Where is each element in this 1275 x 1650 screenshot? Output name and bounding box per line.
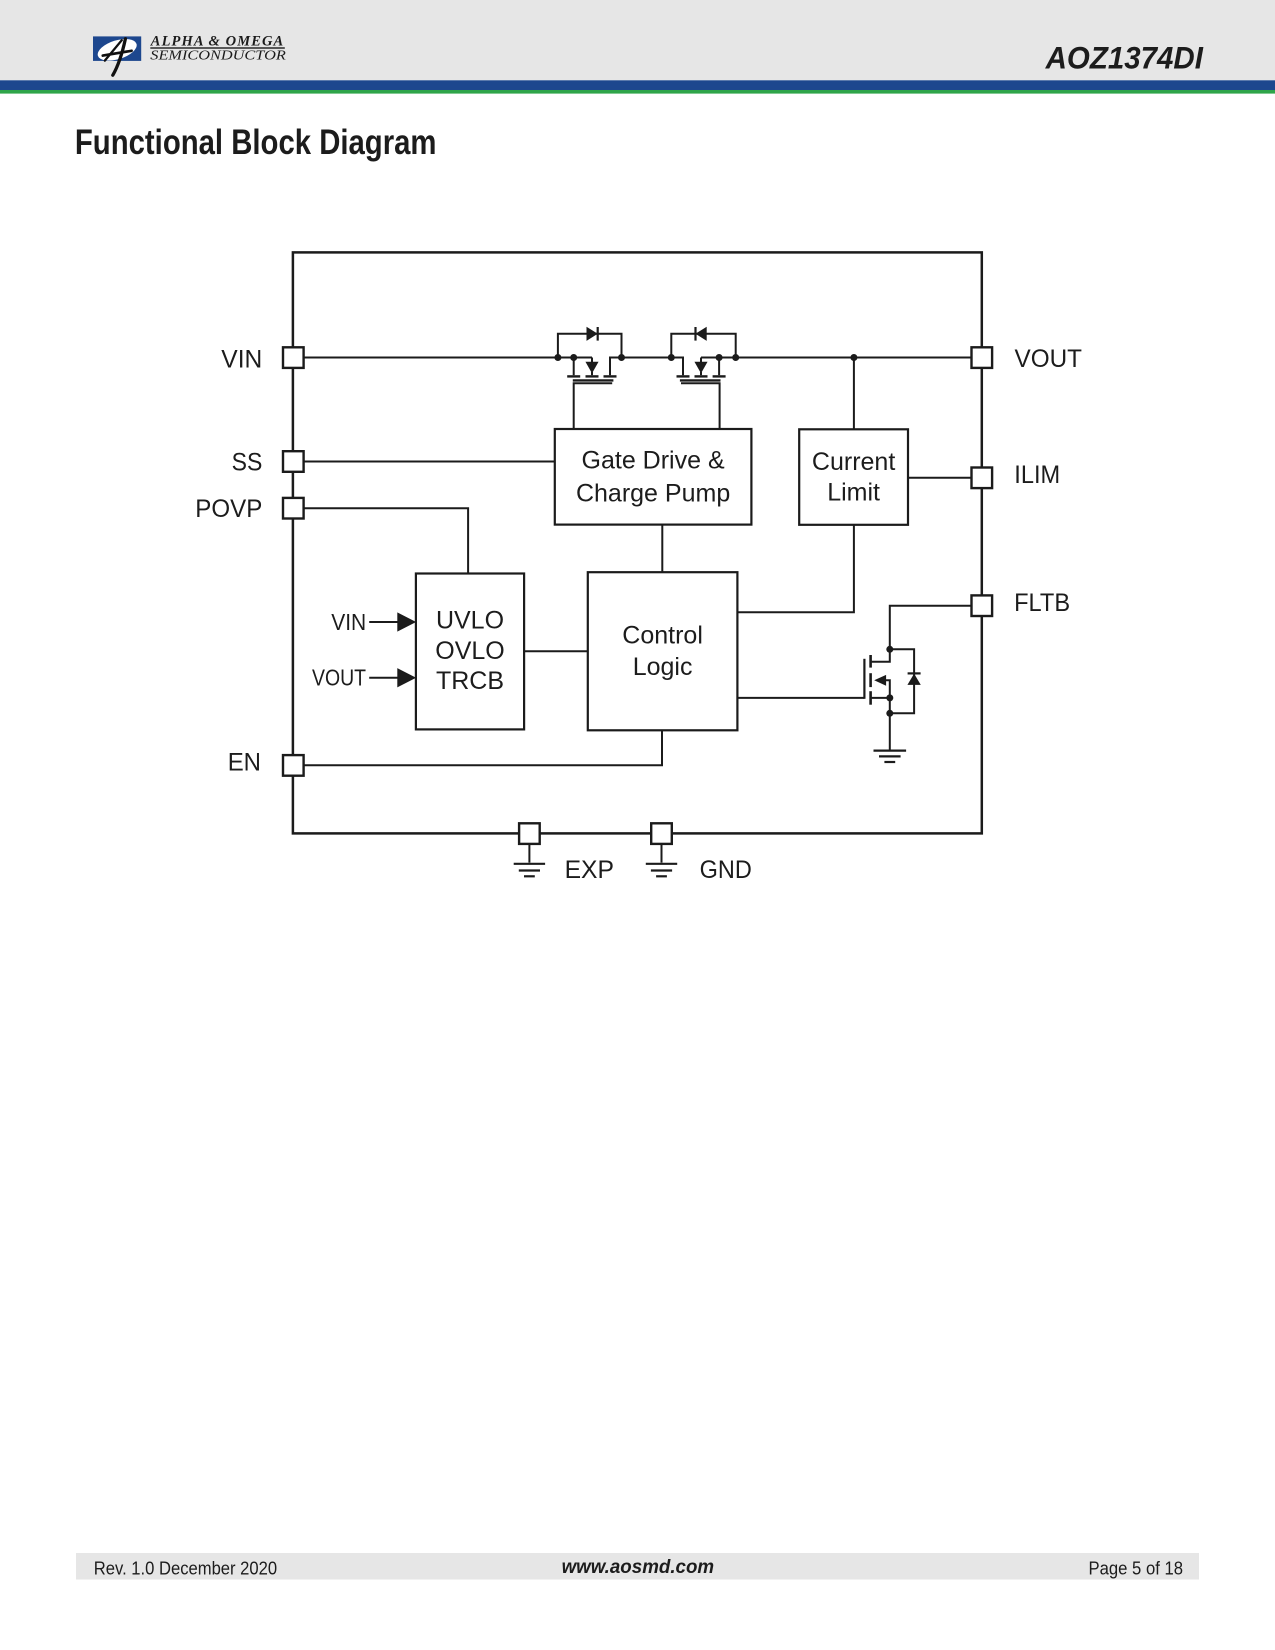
- svg-text:FLTB: FLTB: [1014, 589, 1070, 617]
- wire current limit to ILIM: [908, 477, 972, 479]
- svg-text:Control: Control: [622, 622, 703, 650]
- svg-text:Logic: Logic: [633, 653, 693, 681]
- svg-text:ILIM: ILIM: [1014, 461, 1060, 489]
- wire FLTB to Q3 drain: [872, 606, 972, 662]
- pin ILIM: [972, 468, 993, 489]
- block Gate Drive & Charge Pump: [555, 429, 752, 525]
- pin EN: [283, 755, 304, 776]
- wire gate drive to control logic: [661, 525, 663, 573]
- transistor Q1 body-diode loop: [558, 334, 622, 358]
- svg-text:SEMICONDUCTOR: SEMICONDUCTOR: [150, 47, 286, 62]
- block UVLO OVLO TRCB: [416, 574, 524, 730]
- wire mid segment between MOSFETs: [610, 357, 683, 359]
- logo white ellipse: [95, 35, 139, 65]
- svg-text:www.aosmd.com: www.aosmd.com: [562, 1556, 715, 1578]
- pin SS: [283, 451, 304, 472]
- diode D1: [587, 327, 598, 341]
- svg-text:OVLO: OVLO: [435, 637, 504, 665]
- diode D2: [696, 327, 707, 341]
- wire UVLO block to control logic: [524, 650, 588, 652]
- wire current-limit sense tap: [853, 358, 855, 430]
- logo blue box: [93, 36, 141, 61]
- svg-text:VIN: VIN: [331, 609, 366, 635]
- svg-text:Gate Drive &: Gate Drive &: [582, 447, 725, 475]
- svg-text:TRCB: TRCB: [436, 667, 504, 695]
- block Current Limit: [799, 429, 908, 525]
- svg-text:POVP: POVP: [195, 495, 262, 523]
- transistor Q3: [864, 655, 889, 750]
- pin GND: [651, 823, 672, 844]
- header gray band: [0, 0, 1275, 80]
- logo underline: [150, 47, 284, 48]
- svg-text:VOUT: VOUT: [1015, 345, 1083, 373]
- header green rule: [0, 90, 1275, 94]
- svg-text:VOUT: VOUT: [312, 665, 366, 691]
- pin VIN: [283, 347, 304, 368]
- svg-text:Charge Pump: Charge Pump: [576, 480, 730, 508]
- svg-text:Functional Block Diagram: Functional Block Diagram: [75, 123, 437, 162]
- wire SS to gate drive: [304, 461, 555, 463]
- wire EN to control logic: [304, 730, 663, 765]
- wire control logic to current limit: [737, 525, 854, 613]
- pin VOUT: [972, 347, 993, 368]
- wire VIN rail left segment: [304, 357, 593, 359]
- svg-text:VIN: VIN: [221, 345, 262, 373]
- footer gray bar: [76, 1553, 1199, 1580]
- pin POVP: [283, 498, 304, 519]
- chip outline: [293, 252, 982, 833]
- svg-text:AOZ1374DI: AOZ1374DI: [1045, 40, 1204, 76]
- svg-text:Current: Current: [812, 448, 895, 476]
- wire VOUT rail right segment: [701, 357, 971, 359]
- svg-text:EXP: EXP: [565, 856, 614, 884]
- diode D3 body diode of Q3: [890, 649, 914, 713]
- svg-text:GND: GND: [700, 856, 752, 884]
- svg-text:UVLO: UVLO: [436, 606, 504, 634]
- svg-text:Page 5 of 18: Page 5 of 18: [1089, 1557, 1184, 1578]
- svg-text:Rev. 1.0 December 2020: Rev. 1.0 December 2020: [94, 1557, 277, 1578]
- header blue rule: [0, 80, 1275, 90]
- wire control logic to Q3 gate: [737, 697, 864, 699]
- svg-text:Limit: Limit: [827, 479, 880, 507]
- logo stylized A: [103, 39, 132, 75]
- node junction dots: [554, 354, 893, 717]
- ground below GND: [646, 844, 677, 876]
- transistor Q1: [567, 358, 621, 430]
- transistor Q2: [671, 358, 725, 430]
- wire POVP to UVLO block: [304, 508, 469, 573]
- transistor Q2 body-diode loop: [671, 334, 735, 358]
- ground below EXP: [514, 844, 545, 876]
- pin FLTB: [972, 595, 993, 616]
- ground for Q3 source: [874, 751, 907, 762]
- svg-text:SS: SS: [232, 448, 263, 476]
- svg-text:EN: EN: [228, 748, 261, 776]
- pin EXP: [519, 823, 540, 844]
- arrow VIN into UVLO block: [369, 613, 415, 631]
- arrow VOUT into UVLO block: [369, 669, 415, 687]
- block Control Logic: [588, 572, 738, 730]
